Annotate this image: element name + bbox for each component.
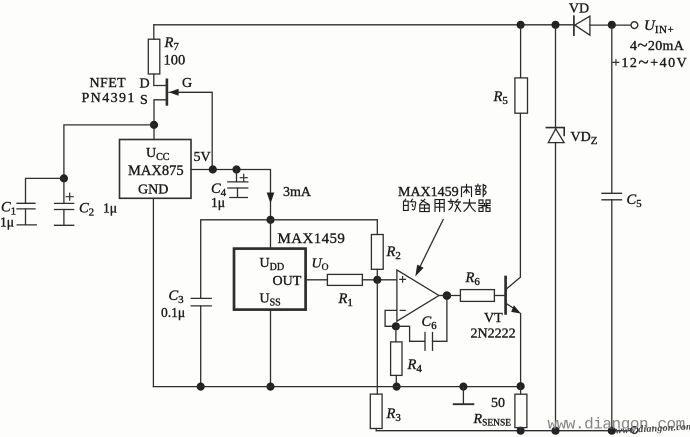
hanzi nei <box>462 184 472 196</box>
wire R1 to opamp <box>362 279 397 281</box>
wire 5V output <box>191 170 271 220</box>
IC U1 MAX1459 <box>234 249 306 310</box>
node R4 ground junction <box>393 383 401 391</box>
wire ground rail <box>153 386 520 388</box>
svg-text:UDD: UDD <box>260 256 285 273</box>
svg-text:D: D <box>140 77 150 92</box>
node summing junction <box>373 276 381 284</box>
op-amp U1A <box>397 270 439 321</box>
wire inverting input jog <box>385 310 397 326</box>
svg-text:VD: VD <box>569 2 589 17</box>
resistor R6 <box>460 290 494 302</box>
svg-text:0.1μ: 0.1μ <box>161 305 185 320</box>
wire bottom return rail <box>376 430 631 432</box>
hanzi yong <box>435 200 444 212</box>
resistor R3 <box>370 394 382 431</box>
svg-text:100: 100 <box>164 53 186 69</box>
svg-text:C6: C6 <box>422 314 438 332</box>
svg-text:MAX875: MAX875 <box>128 163 184 179</box>
wire OUT <box>306 279 328 281</box>
wire GND pin down <box>152 198 154 386</box>
resistor R2 <box>371 220 383 280</box>
capacitor C4 <box>228 170 248 198</box>
junction node on top rail (R5 column) <box>517 21 525 29</box>
hanzi de <box>404 199 416 210</box>
node op-amp output <box>443 291 452 300</box>
wire to C1/C2 net <box>64 125 154 178</box>
svg-text:G: G <box>182 76 192 91</box>
hanzi qi <box>479 200 490 211</box>
diode VD <box>574 16 590 35</box>
svg-text:C5: C5 <box>627 192 643 210</box>
svg-text:1μ: 1μ <box>211 195 225 210</box>
svg-text:USS: USS <box>260 292 281 309</box>
svg-text:OUT: OUT <box>273 274 302 289</box>
svg-text:1μ: 1μ <box>103 201 117 216</box>
capacitor C1 <box>17 203 36 225</box>
node emitter ground junction <box>517 382 525 390</box>
wire R6 to base <box>494 295 504 297</box>
svg-text:R1: R1 <box>338 291 353 309</box>
hanzi fang <box>448 199 460 211</box>
node C4 junction <box>232 165 240 173</box>
capacitor C3 <box>191 298 211 386</box>
svg-text:GND: GND <box>138 183 168 198</box>
node UDD net junction <box>266 216 274 224</box>
svg-text:R6: R6 <box>465 270 481 288</box>
svg-text:UCC: UCC <box>146 146 170 163</box>
svg-text:UO: UO <box>312 257 329 274</box>
svg-text:50: 50 <box>491 396 505 411</box>
zener diode VDZ <box>546 25 564 431</box>
hanzi bu <box>475 184 486 196</box>
svg-text:R5: R5 <box>493 89 509 107</box>
ground <box>454 387 474 405</box>
wire USS pin <box>270 310 272 387</box>
hanzi bei <box>420 199 429 211</box>
capacitor C6 feedback loop <box>396 296 447 350</box>
svg-text:R2: R2 <box>386 244 401 262</box>
svg-text:MAX1459: MAX1459 <box>398 185 459 200</box>
junction node on top rail (VDZ column) <box>551 21 559 29</box>
svg-text:+12~+40V: +12~+40V <box>612 52 688 73</box>
annotation arrow to spare op-amp <box>415 220 443 277</box>
annotation text MAX1459 internal spare amplifier (hanzi drawn as strokes) <box>398 184 490 211</box>
hanzi da <box>464 199 476 211</box>
terminal U_IN- <box>631 427 638 434</box>
svg-text:3mA: 3mA <box>283 185 312 200</box>
svg-text:R7: R7 <box>164 35 180 53</box>
node source junction <box>150 121 158 129</box>
svg-text:R4: R4 <box>407 357 423 375</box>
resistor RSENSE <box>515 386 527 431</box>
3mA current arrow <box>267 193 275 204</box>
node USS ground junction <box>266 383 274 391</box>
transistor Q2 VT 2N2222 <box>506 113 521 386</box>
node bottom rail VDZ <box>551 427 559 435</box>
svg-text:VDZ: VDZ <box>571 130 598 147</box>
wire UDD pin <box>270 220 272 249</box>
wire summing node to R3 <box>376 280 378 394</box>
wire output to R6 <box>439 295 461 297</box>
wire to C1 <box>26 178 64 203</box>
node C2 junction <box>60 174 68 182</box>
svg-text:2N2222: 2N2222 <box>471 327 516 342</box>
resistor R5 <box>515 25 528 113</box>
svg-text:NFET: NFET <box>90 76 127 91</box>
svg-text:VT: VT <box>484 311 503 326</box>
node ground symbol junction <box>459 383 467 391</box>
svg-text:5V: 5V <box>194 150 211 165</box>
junction node on top rail (C5 column) <box>608 21 616 29</box>
wire diode to input terminal <box>590 24 631 26</box>
transistor Q1 NFET PN4391 <box>154 80 212 170</box>
resistor R4 <box>391 326 402 386</box>
node bottom rail C5 <box>608 427 616 435</box>
node feedback junction <box>392 322 400 330</box>
svg-text:C3: C3 <box>169 288 185 306</box>
svg-text:PN4391: PN4391 <box>82 91 136 106</box>
wire UDD net rail <box>201 220 378 298</box>
svg-text:RSENSE: RSENSE <box>473 412 512 429</box>
node 5V gate junction <box>209 165 217 173</box>
svg-text:MAX1459: MAX1459 <box>278 231 346 247</box>
node C3 ground junction <box>197 383 205 391</box>
resistor R7 <box>148 25 166 86</box>
resistor R1 <box>327 274 362 285</box>
capacitor C2 <box>55 178 74 225</box>
capacitor C5 <box>602 25 622 431</box>
node bottom rail RSENSE <box>517 427 525 435</box>
svg-text:1μ: 1μ <box>0 215 14 230</box>
svg-text:S: S <box>140 93 148 108</box>
svg-text:UIN+: UIN+ <box>644 18 674 36</box>
terminal U_IN+ <box>631 22 638 29</box>
wire top rail left segment <box>154 24 574 26</box>
svg-text:C2: C2 <box>79 201 94 219</box>
IC U2 MAX875 <box>120 140 192 199</box>
svg-text:R3: R3 <box>386 406 402 424</box>
